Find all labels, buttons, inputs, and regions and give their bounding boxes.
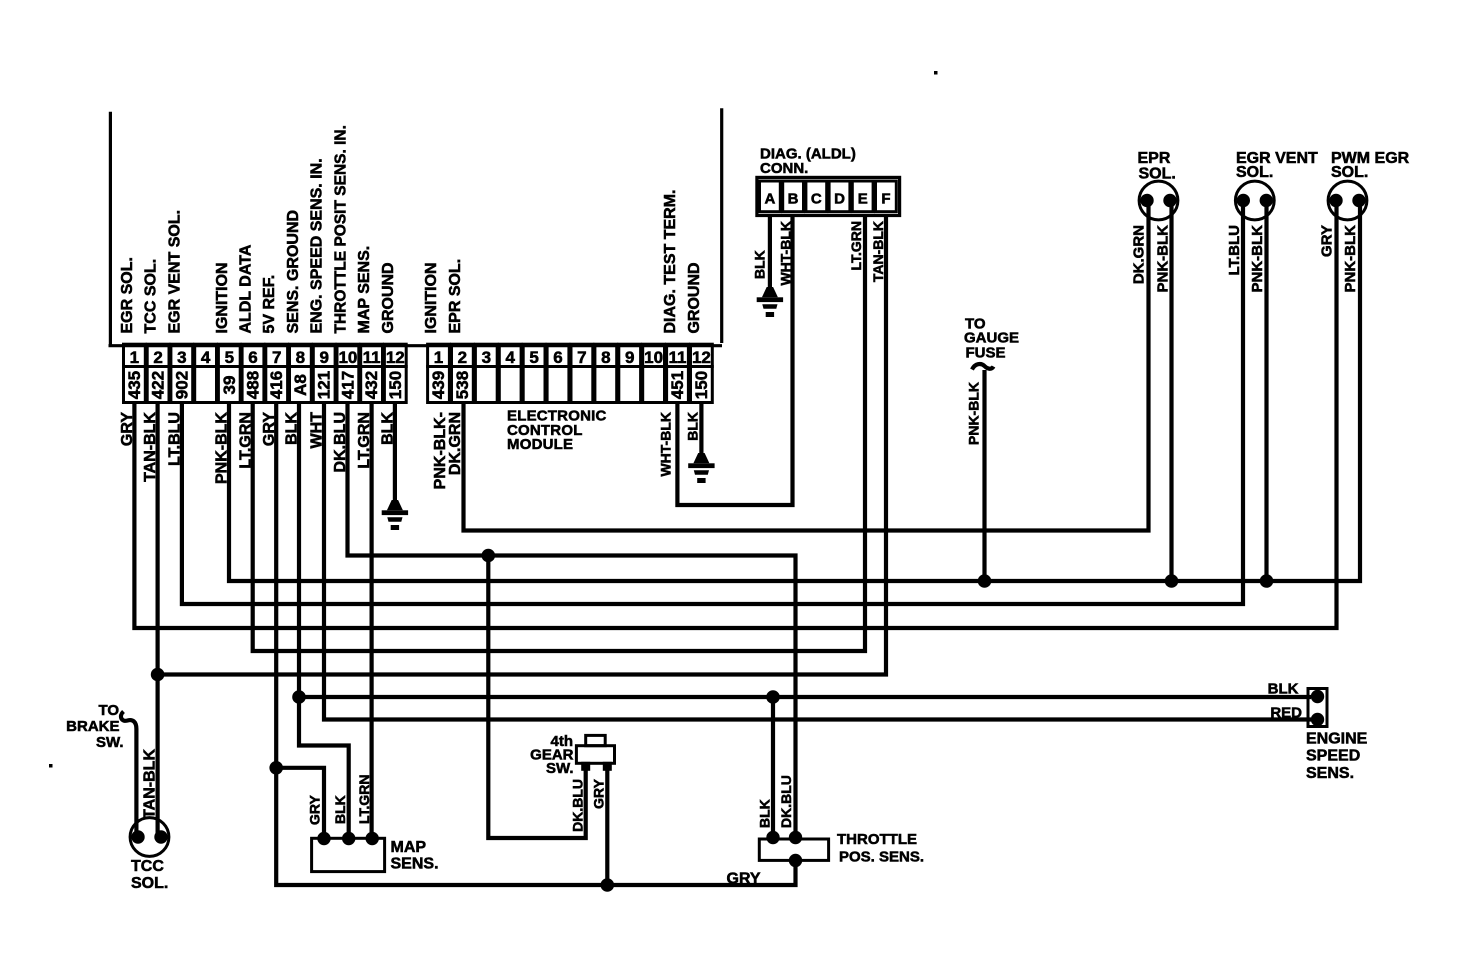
- svg-text:ENG. SPEED SENS. IN.: ENG. SPEED SENS. IN.: [309, 158, 326, 333]
- wire TAN-BLK 422 TCC SOL. net - ECM A2 down to TCC SOL: [156, 402, 160, 837]
- svg-text:MODULE: MODULE: [507, 436, 573, 453]
- wire BLK 150 GROUND - ECM A12: [393, 402, 397, 501]
- svg-text:10: 10: [644, 348, 663, 367]
- svg-text:PNK-BLK: PNK-BLK: [214, 412, 231, 484]
- wire LT.GRN 488 ALDL DATA - ECM A6 to ALDL pin E: [253, 216, 865, 652]
- wire WHT-BLK 451 DIAG. TEST TERM. - ECM B11 to ALDL pin B: [677, 216, 792, 506]
- svg-text:F: F: [881, 191, 890, 208]
- node TO GAUGE FUSE stub: [972, 364, 994, 369]
- svg-text:SW.: SW.: [96, 734, 124, 751]
- connector J2 pin 10 cell: [643, 344, 665, 366]
- wire BLK ALDL pin A to ground: [768, 216, 772, 289]
- svg-text:BLK: BLK: [284, 412, 301, 445]
- svg-text:GRY: GRY: [307, 795, 323, 825]
- svg-text:DIAG. TEST TERM.: DIAG. TEST TERM.: [662, 190, 679, 334]
- connector J2 pin 4 cell: [499, 344, 521, 366]
- sensor B2 THROTTLE POS. SENS.: [759, 839, 828, 860]
- connector J1 pin 10 cell: [337, 344, 359, 366]
- svg-text:BLK: BLK: [332, 795, 348, 824]
- svg-text:150: 150: [386, 371, 405, 399]
- svg-text:SPEED: SPEED: [1306, 748, 1360, 765]
- svg-text:416: 416: [267, 371, 286, 399]
- node speck top: [934, 71, 938, 75]
- connector J2 pin 12 cell: [691, 344, 713, 366]
- svg-text:9: 9: [625, 348, 634, 367]
- svg-text:6: 6: [248, 348, 257, 367]
- svg-text:A8: A8: [291, 374, 310, 396]
- svg-text:MAP SENS.: MAP SENS.: [356, 246, 373, 334]
- svg-text:TCC SOL.: TCC SOL.: [143, 259, 160, 334]
- svg-text:5: 5: [529, 348, 538, 367]
- node junction GRY MAP branch: [269, 761, 283, 775]
- svg-text:1: 1: [130, 348, 139, 367]
- wire TAN-BLK branch to ALDL pin F: [158, 216, 886, 675]
- svg-text:6: 6: [553, 348, 562, 367]
- node junction GRY 4th gear: [601, 878, 615, 892]
- wire GRY 416 5V REF. - ECM A7 to TPS bottom pin: [276, 402, 795, 885]
- svg-text:SOL.: SOL.: [1236, 164, 1273, 181]
- connector J2 pin 3 cell: [475, 344, 497, 366]
- connector J2 pin 9 cell: [619, 344, 641, 366]
- svg-text:TO: TO: [98, 702, 119, 719]
- svg-text:8: 8: [601, 348, 610, 367]
- svg-text:BLK: BLK: [1268, 681, 1299, 698]
- connector J1 pin 5 cell: [218, 344, 240, 366]
- svg-text:D: D: [834, 191, 845, 208]
- svg-text:GRY: GRY: [727, 871, 761, 888]
- connector J3 pin B cell: [783, 181, 804, 212]
- wire PNK-BLK branch to EGR VENT SOL right pin: [1264, 201, 1268, 581]
- svg-text:ENGINE: ENGINE: [1306, 731, 1368, 748]
- ECM U1 ELECTRONIC CONTROL MODULE outline left edge: [109, 112, 112, 346]
- svg-text:LT.BLU: LT.BLU: [167, 412, 184, 466]
- connector J2 pin 1 cell: [428, 344, 450, 366]
- connector J1 pin 4 cell: [195, 344, 217, 366]
- connector J1 pin 1 cell: [124, 344, 146, 366]
- connector J1 pin 12 cell: [384, 344, 406, 366]
- svg-text:TAN-BLK: TAN-BLK: [870, 221, 886, 282]
- sensor B3 ENGINE SPEED SENS.: [1308, 689, 1327, 727]
- node junction DK.BLU 4th gear branch: [482, 549, 496, 563]
- svg-text:TAN-BLK: TAN-BLK: [142, 749, 159, 819]
- svg-text:488: 488: [244, 371, 263, 399]
- svg-text:GROUND: GROUND: [686, 262, 703, 333]
- svg-text:4: 4: [505, 348, 515, 367]
- wire WHT 121 ENG. SPEED SENS. IN. - ECM A9 to ENGINE SPEED SENS RED: [324, 402, 1311, 720]
- wire PNK-BLK branch to EPR SOL right pin: [1169, 201, 1173, 581]
- svg-text:435: 435: [125, 371, 144, 399]
- connector J3 pin C cell: [806, 181, 827, 212]
- svg-text:B: B: [788, 191, 799, 208]
- wire ECM connector top rail: [109, 344, 723, 347]
- connector J3 pin D cell: [829, 181, 850, 212]
- svg-text:SOL.: SOL.: [1331, 164, 1368, 181]
- connector J1 pin 6 cell: [242, 344, 264, 366]
- svg-text:39: 39: [220, 376, 239, 395]
- svg-text:902: 902: [172, 371, 191, 399]
- wire DK.BLU branch to 4th gear switch: [488, 556, 585, 839]
- wire LT.GRN 432 MAP SENS. - ECM A11 to MAP SENS: [370, 402, 374, 839]
- svg-text:BLK: BLK: [752, 250, 768, 279]
- svg-text:WHT: WHT: [309, 412, 326, 449]
- node junction PNK-BLK EGR VENT: [1260, 574, 1274, 588]
- connector J1 pin 8 cell: [290, 344, 312, 366]
- svg-text:E: E: [858, 191, 868, 208]
- ECM U1 ELECTRONIC CONTROL MODULE outline right edge: [720, 108, 723, 343]
- ground ECM B12: [688, 453, 714, 483]
- svg-text:432: 432: [362, 371, 381, 399]
- svg-text:GRY: GRY: [1319, 225, 1336, 257]
- svg-text:10: 10: [338, 348, 357, 367]
- connector J1 pin 3 cell: [171, 344, 193, 366]
- svg-text:BLK: BLK: [757, 799, 773, 828]
- wire GRY 4th gear switch to 5V REF bus: [605, 766, 609, 885]
- svg-text:FUSE: FUSE: [966, 345, 1006, 362]
- svg-text:439: 439: [429, 371, 448, 399]
- solenoid L2 EGR VENT SOL.: [1235, 181, 1274, 220]
- svg-text:GRY: GRY: [119, 412, 136, 446]
- svg-text:2: 2: [153, 348, 162, 367]
- connector J2 pin 2 cell: [452, 344, 474, 366]
- connector J3 pin A cell: [760, 181, 781, 212]
- node junction PNK-BLK gauge fuse: [978, 574, 992, 588]
- svg-text:EPR SOL.: EPR SOL.: [447, 259, 464, 334]
- svg-text:EPR: EPR: [1138, 150, 1171, 167]
- svg-text:7: 7: [577, 348, 586, 367]
- connector J1 pin 7 cell: [266, 344, 288, 366]
- svg-text:150: 150: [692, 371, 711, 399]
- svg-text:THROTTLE: THROTTLE: [837, 831, 917, 848]
- svg-text:12: 12: [386, 348, 405, 367]
- connector J2 pin 7 cell: [571, 344, 593, 366]
- svg-text:A: A: [764, 191, 775, 208]
- sensor B1 MAP SENS.: [312, 838, 385, 871]
- wire PNK-BLK/DK.GRN 538 EPR net - ECM B2 to EPR SOL left pin: [464, 201, 1149, 531]
- svg-text:IGNITION: IGNITION: [214, 262, 231, 333]
- svg-text:9: 9: [319, 348, 328, 367]
- wire LT.BLU 902 EGR VENT net - ECM A3 to EGR VENT SOL left pin: [182, 201, 1243, 604]
- svg-text:MAP: MAP: [391, 839, 427, 856]
- svg-text:POS. SENS.: POS. SENS.: [839, 849, 924, 866]
- ground ALDL pin A: [757, 287, 783, 317]
- svg-text:DK.GRN: DK.GRN: [447, 412, 464, 475]
- connector J2 pin 8 cell: [595, 344, 617, 366]
- node junction BLK TPS branch: [766, 690, 780, 704]
- svg-text:LT.GRN: LT.GRN: [356, 774, 372, 824]
- node speck left: [49, 764, 53, 768]
- svg-text:DK.BLU: DK.BLU: [332, 412, 349, 472]
- solenoid L4 TCC SOL.: [130, 818, 169, 857]
- svg-text:DK.BLU: DK.BLU: [778, 775, 794, 828]
- svg-text:417: 417: [338, 371, 357, 399]
- wire TO BRAKE SW. stub with hook: [121, 712, 136, 838]
- connector J2 pin 5 cell: [523, 344, 545, 366]
- connector J2 pin 11 cell: [667, 344, 689, 366]
- connector J3 pin F cell: [876, 181, 897, 212]
- svg-text:422: 422: [149, 371, 168, 399]
- connector J3 pin E cell: [852, 181, 873, 212]
- svg-text:LT.GRN: LT.GRN: [356, 412, 373, 469]
- svg-text:LT.GRN: LT.GRN: [848, 221, 864, 271]
- svg-text:4: 4: [201, 348, 211, 367]
- connector J1 pin 9 cell: [313, 344, 335, 366]
- svg-text:GRY: GRY: [591, 778, 607, 808]
- svg-text:2: 2: [458, 348, 467, 367]
- svg-text:SENS. GROUND: SENS. GROUND: [285, 210, 302, 334]
- svg-text:BLK: BLK: [685, 412, 701, 441]
- solenoid L3 PWM EGR SOL.: [1328, 181, 1367, 220]
- svg-text:3: 3: [482, 348, 491, 367]
- svg-text:121: 121: [315, 371, 334, 399]
- svg-text:11: 11: [363, 348, 381, 367]
- ground ECM A12: [382, 500, 408, 530]
- svg-text:CONN.: CONN.: [760, 160, 808, 177]
- connector J1 pin 11 cell: [361, 344, 383, 366]
- svg-text:5: 5: [225, 348, 234, 367]
- svg-text:DK.GRN: DK.GRN: [1131, 225, 1148, 284]
- svg-text:DK.BLU: DK.BLU: [570, 779, 586, 832]
- svg-text:PNK-BLK: PNK-BLK: [966, 382, 982, 445]
- solenoid L1 EPR SOL.: [1139, 181, 1178, 220]
- switch S1 4th GEAR SW.: [586, 735, 606, 745]
- connector J1 pin 2 cell: [147, 344, 169, 366]
- svg-text:PNK-BLK: PNK-BLK: [1155, 225, 1172, 293]
- svg-text:GROUND: GROUND: [380, 262, 397, 333]
- svg-text:RED: RED: [1270, 705, 1302, 722]
- wire PNK-BLK branch to gauge fuse: [982, 370, 986, 581]
- wire BLK branch to THROTTLE POS SENS: [771, 697, 775, 838]
- wire DK.BLU 417 THROTTLE POSIT SENS. IN. - ECM A10 to TPS: [348, 402, 796, 838]
- svg-text:SOL.: SOL.: [1139, 166, 1176, 183]
- svg-text:12: 12: [692, 348, 711, 367]
- svg-text:11: 11: [669, 348, 687, 367]
- svg-text:BLK: BLK: [380, 412, 397, 445]
- svg-text:SENS.: SENS.: [391, 856, 439, 873]
- svg-text:LT.GRN: LT.GRN: [237, 412, 254, 469]
- svg-text:SW.: SW.: [546, 760, 574, 777]
- connector J2 pin 6 cell: [547, 344, 569, 366]
- svg-text:GRY: GRY: [261, 412, 278, 446]
- svg-text:ALDL DATA: ALDL DATA: [238, 244, 255, 333]
- node junction BLK bus: [292, 690, 306, 704]
- wire BLK sens ground bus to ENGINE SPEED SENS: [299, 695, 1311, 699]
- svg-text:TCC: TCC: [131, 858, 164, 875]
- svg-text:WHT-BLK: WHT-BLK: [778, 221, 794, 286]
- wire GRY 435 EGR SOL. net - ECM A1 to PWM EGR SOL left pin: [134, 201, 1336, 628]
- wire BLK 150 GROUND - ECM B12: [699, 402, 703, 454]
- svg-text:TAN-BLK: TAN-BLK: [142, 412, 159, 482]
- svg-text:451: 451: [668, 371, 687, 399]
- svg-text:1: 1: [434, 348, 443, 367]
- wire GRY branch to MAP SENS: [276, 768, 324, 839]
- svg-text:IGNITION: IGNITION: [423, 262, 440, 333]
- svg-text:PNK-BLK: PNK-BLK: [1342, 225, 1359, 293]
- svg-text:BRAKE: BRAKE: [66, 718, 119, 735]
- node junction TAN-BLK: [151, 668, 165, 682]
- wire PNK-BLK 39 IGNITION bus - ECM A5 to solenoids feed: [229, 201, 1360, 581]
- svg-text:WHT-BLK: WHT-BLK: [658, 412, 674, 477]
- svg-text:LT.BLU: LT.BLU: [1226, 225, 1243, 276]
- node junction PNK-BLK EPR: [1165, 574, 1179, 588]
- svg-text:7: 7: [272, 348, 281, 367]
- svg-text:8: 8: [296, 348, 305, 367]
- svg-text:C: C: [811, 191, 822, 208]
- svg-text:5V REF.: 5V REF.: [261, 275, 278, 334]
- svg-text:PNK-BLK: PNK-BLK: [1249, 225, 1266, 293]
- svg-text:THROTTLE POSIT SENS. IN.: THROTTLE POSIT SENS. IN.: [332, 125, 349, 333]
- svg-text:EGR VENT SOL.: EGR VENT SOL.: [166, 210, 183, 334]
- connector J3 DIAG. (ALDL) CONN.: [757, 177, 900, 215]
- svg-text:SOL.: SOL.: [131, 875, 168, 892]
- wire BLK A8 SENS. GROUND - ECM A8 to MAP SENS: [299, 402, 349, 839]
- svg-text:538: 538: [453, 371, 472, 399]
- svg-text:EGR SOL.: EGR SOL.: [119, 257, 136, 333]
- svg-text:3: 3: [177, 348, 186, 367]
- svg-text:SENS.: SENS.: [1306, 765, 1354, 782]
